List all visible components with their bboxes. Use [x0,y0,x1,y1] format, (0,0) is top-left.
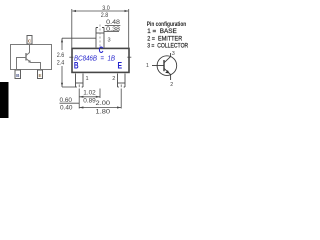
dim text 2.8 [101,12,109,19]
wire: base lead 1 [152,65,164,67]
pin 1 (bottom left lead) [76,74,84,88]
wire: emitter lead to pin E [26,59,40,70]
svg-text:2.00: 2.00 [96,100,111,107]
pin 2 (bottom right lead) [118,74,126,88]
emitter arrowhead [28,60,31,63]
svg-text:1.02: 1.02 [83,89,96,96]
dimension: top width 3.0/2.8 [72,9,129,48]
svg-text:3 = COLLECTOR: 3 = COLLECTOR [147,42,188,49]
transistor Q1 base bar [25,53,27,61]
pin label E [38,73,41,78]
svg-text:B: B [74,61,79,71]
svg-text:2: 2 [170,82,173,88]
pin number 1 [86,76,89,82]
svg-text:2.4: 2.4 [57,59,65,66]
svg-text:2 = EMITTER: 2 = EMITTER [147,35,182,42]
dim text 2.4 [57,59,65,66]
svg-text:C: C [99,45,104,55]
pin label B [16,73,20,78]
black bar (page margin mark) [0,82,9,118]
dimension: lead width 0.48/0.38 [106,19,120,26]
extension lines bottom [79,89,121,109]
legend row 2 = EMITTER [147,35,182,42]
svg-text:3: 3 [172,51,175,57]
pin box C (top) [27,36,32,45]
dimension: height 2.6/2.4 left side [62,38,96,87]
svg-text:2: 2 [112,76,115,82]
pin number 1 [146,63,149,69]
body centerline tick left [69,56,73,58]
marking code BC846B = 1B [74,56,115,63]
svg-text:1 = BASE: 1 = BASE [147,28,177,35]
svg-text:Pin configuration: Pin configuration [147,21,186,28]
heading Pin configuration [147,21,186,28]
svg-text:0.89: 0.89 [83,98,96,105]
terminal letter B [74,61,79,71]
Q2 emitter arrowhead [165,70,169,73]
wire: collector lead 3 [164,53,171,63]
wire: emitter lead 2 [164,68,171,80]
pin number 3 [172,51,175,57]
dimension: lead length 0.60/0.40 [60,97,73,104]
dim text 2.6 [57,52,65,59]
pin number 2 [170,82,173,88]
svg-text:0.40: 0.40 [60,105,73,112]
Q2 base bar [163,60,165,71]
legend row 1 = BASE [147,28,177,35]
legend row 3 = COLLECTOR [147,42,188,49]
svg-text:1: 1 [146,63,149,69]
package outline (top view) [11,45,52,70]
terminal letter E [118,61,123,71]
terminal letter C [99,45,104,55]
pin box B (bottom left) [15,70,21,79]
pin 3 (top lead) [96,28,104,48]
svg-text:E: E [118,61,123,71]
pin number 3 [108,38,111,44]
arrowheads 2.6/2.4 [61,38,63,86]
pin number 2 [112,76,115,82]
pin box E (bottom right) [38,70,43,79]
pin label C [28,38,32,43]
wire: collector lead from pin C [26,44,29,55]
package body [72,48,129,72]
svg-text:BC846B = 1B: BC846B = 1B [74,56,115,63]
svg-text:E: E [38,73,41,78]
dimension: span 2.00/1.80 [79,107,121,109]
svg-text:3.0: 3.0 [102,5,110,12]
svg-text:2.6: 2.6 [57,52,65,59]
svg-text:1.80: 1.80 [96,109,111,116]
dim text 3.0 [102,5,110,12]
wire: base lead to pin B [17,58,27,71]
transistor Q2 circle [157,56,177,76]
pin 3 centerline [99,25,101,48]
body centerline tick right [127,56,131,58]
svg-text:3: 3 [108,38,111,44]
svg-text:2.8: 2.8 [101,12,109,19]
arrowheads top dim [72,10,129,12]
dimension: pitch 1.02/0.89 [79,96,100,98]
svg-text:1: 1 [86,76,89,82]
